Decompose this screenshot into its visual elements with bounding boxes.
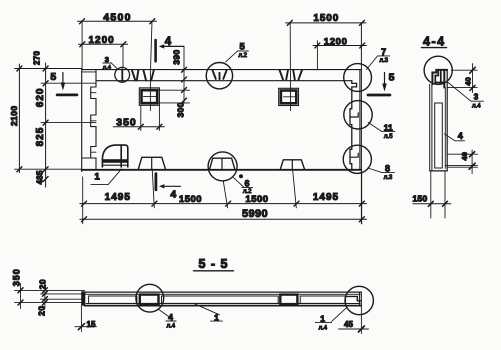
- svg-text:40: 40: [463, 77, 472, 86]
- section 5-5 leader label 1/l4 right: [315, 307, 347, 331]
- opening O1 thick inner ring: [142, 90, 158, 103]
- opening O1 outer: [139, 88, 159, 105]
- section 4-4 title: [422, 35, 447, 49]
- dim 1500 right text: [313, 13, 339, 24]
- bottom extension lines: [83, 169, 362, 224]
- opening O2 horizontal center dash: [284, 96, 297, 98]
- top band joint wedge W1: [132, 70, 138, 80]
- section 4-4 top corner profile: [432, 70, 447, 88]
- panel right member inner edge with notches: [350, 81, 358, 170]
- svg-text:1495: 1495: [105, 192, 131, 203]
- callout circle 7: [344, 64, 372, 92]
- svg-text:л.4: л.4: [103, 65, 112, 71]
- svg-text:485: 485: [36, 170, 45, 184]
- callout circle 11: [344, 101, 372, 129]
- section 5-5 dim 45 right: [339, 306, 369, 334]
- section 4-4 inner rib: [435, 103, 443, 168]
- svg-text:л.3: л.3: [384, 175, 393, 181]
- dim 4500 line: [78, 19, 157, 69]
- dim 4500 text: [103, 12, 132, 24]
- section 5-5 dim 20 top and 20 bottom: [37, 279, 48, 316]
- section 5-5 left dim extension lines: [15, 290, 87, 302]
- svg-text:300: 300: [175, 102, 185, 117]
- section 5-5 leader label 1: [195, 304, 223, 323]
- leader label 8/l3 bottom-right: [368, 163, 395, 181]
- section 4-4 leader label 4: [444, 131, 464, 141]
- callout circle 8: [343, 145, 371, 173]
- section 5-5 opening 2 (thick border): [280, 295, 297, 305]
- svg-text:1500: 1500: [313, 13, 339, 24]
- section 5-5 leader label 4/l4: [159, 310, 176, 330]
- top band joint wedge W4: [280, 70, 303, 80]
- panel right outer edge: [359, 70, 361, 170]
- svg-text:4500: 4500: [103, 12, 132, 24]
- svg-text:5 - 5: 5 - 5: [198, 257, 228, 271]
- opening O1 vertical centerline: [150, 21, 152, 110]
- section marker 5 right: [368, 71, 395, 95]
- callout circle 3: [115, 67, 130, 82]
- dim 1495 text left: [105, 192, 131, 203]
- callout circle 5: [206, 62, 232, 88]
- section 4-4 dim 40 bottom: [445, 150, 477, 174]
- opening O2 vertical centerline: [289, 23, 291, 111]
- leader label 1 bottom-left: [91, 169, 122, 185]
- dim 2100 text (rotated): [9, 105, 19, 126]
- dim 1500 text mid-right: [245, 194, 268, 205]
- svg-text:5990: 5990: [242, 208, 268, 220]
- svg-text:270: 270: [32, 51, 41, 65]
- svg-text:л.4: л.4: [167, 323, 176, 329]
- section 5-5 title: [194, 257, 234, 271]
- svg-text:л.4: л.4: [319, 326, 328, 332]
- section marker 4 top: [156, 36, 184, 61]
- dim 1500 right line: [286, 20, 367, 25]
- dim 1200 left text: [88, 35, 114, 46]
- svg-text:л.2: л.2: [238, 53, 247, 59]
- svg-text:1: 1: [320, 314, 325, 324]
- dim column 390/300: [158, 47, 190, 104]
- svg-text:1500: 1500: [245, 194, 268, 205]
- svg-text:620: 620: [35, 88, 46, 108]
- opening O1 horizontal center dash: [144, 96, 158, 98]
- section 4-4 dim 150: [412, 171, 450, 218]
- section 5-5 dim 350: [11, 268, 23, 308]
- dim 1200 left line: [79, 42, 128, 68]
- top band joint wedge W3 (in callout circle 5): [213, 70, 227, 79]
- panel left member inner edge with notches: [82, 70, 96, 170]
- section marker 4 bottom: [156, 174, 181, 201]
- section 5-5 opening 1 (thick border, in circle): [140, 295, 159, 305]
- section 5-5 right end detail: [346, 292, 361, 306]
- leader label 11/l5 right: [368, 122, 395, 139]
- dim 620 text (rotated): [35, 88, 46, 108]
- section 5-5 member top edge: [85, 292, 362, 294]
- section 4-4 dim 40 top: [447, 64, 477, 93]
- svg-text:1: 1: [95, 171, 101, 182]
- extension line right edge (top dims to bottom dims): [360, 23, 362, 224]
- left dim line segments 270/620/825/485: [41, 63, 96, 187]
- section 4-4 detail circle: [424, 56, 452, 84]
- dim 390 text (rotated): [172, 49, 182, 64]
- panel left outer edge: [81, 69, 83, 172]
- section 5-5 rib 1: [89, 296, 137, 303]
- top band joint wedge W2: [144, 70, 154, 80]
- svg-text:4: 4: [458, 131, 463, 141]
- svg-text:л.5: л.5: [384, 134, 393, 140]
- dim 485 text (rotated): [36, 170, 45, 184]
- dim 1200 right text: [324, 37, 348, 48]
- svg-text:390: 390: [172, 49, 182, 64]
- dim 5990 text: [242, 208, 268, 220]
- leader label 6/l2 bottom-center: [233, 178, 252, 195]
- section 5-5 member bottom edge: [85, 304, 362, 306]
- section 5-5 dim 15 left: [75, 306, 97, 332]
- callout circle 6: [208, 152, 237, 181]
- dim 825 text (rotated): [35, 127, 46, 147]
- leader label 3/l4 top-left: [103, 55, 118, 71]
- dim 1495 text right: [313, 192, 339, 203]
- opening O2 thick inner ring: [281, 91, 296, 104]
- left dim line 2100: [15, 64, 82, 173]
- panel top band bottom line: [96, 80, 352, 82]
- rib trapezoid T1: [139, 157, 166, 168]
- section 5-5 detail circle: [136, 284, 164, 312]
- svg-text:4-4: 4-4: [423, 35, 446, 49]
- section 5-5 rib 3: [300, 296, 345, 303]
- section 4-4 leader label 3/l4: [448, 83, 483, 110]
- leader label 7/l3 top-right: [367, 47, 390, 70]
- svg-text:15: 15: [87, 320, 96, 329]
- svg-text:11: 11: [384, 123, 393, 133]
- svg-text:40: 40: [460, 152, 469, 161]
- svg-text:45: 45: [344, 320, 353, 329]
- section 5-5 left end bar: [81, 291, 85, 305]
- dim 270 text (rotated): [32, 51, 41, 65]
- svg-text:350: 350: [11, 268, 21, 286]
- panel outline top edge: [82, 69, 362, 71]
- svg-text:л.2: л.2: [243, 189, 252, 195]
- rib trapezoid T3: [280, 160, 304, 170]
- bottom dim line 5990: [80, 217, 367, 222]
- svg-text:5: 5: [50, 71, 56, 83]
- lifting loop (arch): [102, 145, 127, 167]
- svg-text:3: 3: [474, 93, 479, 102]
- section marker 5 top-left: [50, 71, 77, 95]
- dim 300 text (rotated): [175, 102, 185, 117]
- svg-text:1495: 1495: [313, 192, 339, 203]
- svg-text:1200: 1200: [324, 37, 348, 48]
- joint tick in callout circle 3: [121, 69, 123, 81]
- svg-text:6: 6: [244, 178, 249, 188]
- dim 1200 right line: [313, 41, 367, 70]
- panel bottom edge: [82, 169, 362, 171]
- section 5-5 rib 2: [162, 296, 279, 303]
- leader label 5/l2 top-center: [226, 42, 249, 62]
- svg-text:8: 8: [385, 163, 390, 173]
- svg-text:5: 5: [389, 71, 395, 83]
- svg-text:л.3: л.3: [379, 58, 388, 64]
- section 5-5 right end detail circle: [345, 286, 373, 314]
- section 4-4 member edges: [430, 70, 448, 171]
- svg-text:7: 7: [381, 47, 386, 57]
- svg-text:150: 150: [412, 193, 427, 203]
- opening O2 outer: [279, 88, 299, 105]
- svg-text:л.4: л.4: [472, 104, 481, 110]
- svg-text:4: 4: [170, 188, 176, 200]
- ink speck on bottom edge: [239, 174, 243, 178]
- dim 1500 text mid-left: [179, 194, 202, 205]
- svg-text:20: 20: [37, 279, 47, 289]
- svg-text:2100: 2100: [9, 105, 19, 126]
- svg-text:20: 20: [37, 305, 47, 315]
- svg-text:350: 350: [116, 116, 137, 128]
- dim 350 plan text: [116, 116, 137, 128]
- rib trapezoid T2 (in callout circle 6): [210, 158, 235, 169]
- svg-text:1500: 1500: [179, 194, 202, 205]
- svg-text:1200: 1200: [88, 35, 114, 46]
- bottom dim line 1495/1500/1500/1495: [80, 201, 367, 206]
- svg-text:4: 4: [165, 36, 172, 48]
- svg-text:825: 825: [35, 127, 46, 147]
- dim 350 plan line: [113, 106, 164, 131]
